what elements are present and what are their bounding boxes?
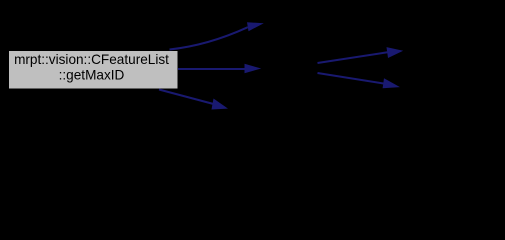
edge E1 wire: getMaxID to hidden node A (top) <box>170 27 248 49</box>
edge E2 arrowhead <box>245 64 262 73</box>
edge E4 arrowhead <box>387 47 404 58</box>
edge E1 arrowhead <box>247 22 264 31</box>
svg-text:::getMaxID: ::getMaxID <box>59 68 125 83</box>
edge E2 wire: getMaxID to hidden node B (middle) <box>178 68 246 70</box>
node N1 mrpt::vision::CFeatureList::getMaxID (grey box) <box>9 51 179 90</box>
edge E4 wire: hidden node B to hidden node D (far right top) <box>318 52 388 63</box>
edge E5 arrowhead <box>383 78 400 88</box>
edge E5 wire: hidden node B to hidden node E (far right bottom) <box>318 73 384 84</box>
edge E3 arrowhead <box>212 99 229 110</box>
svg-text:mrpt::vision::CFeatureList: mrpt::vision::CFeatureList <box>14 52 169 67</box>
edge E3 wire: getMaxID to hidden node C (bottom) <box>159 90 214 105</box>
